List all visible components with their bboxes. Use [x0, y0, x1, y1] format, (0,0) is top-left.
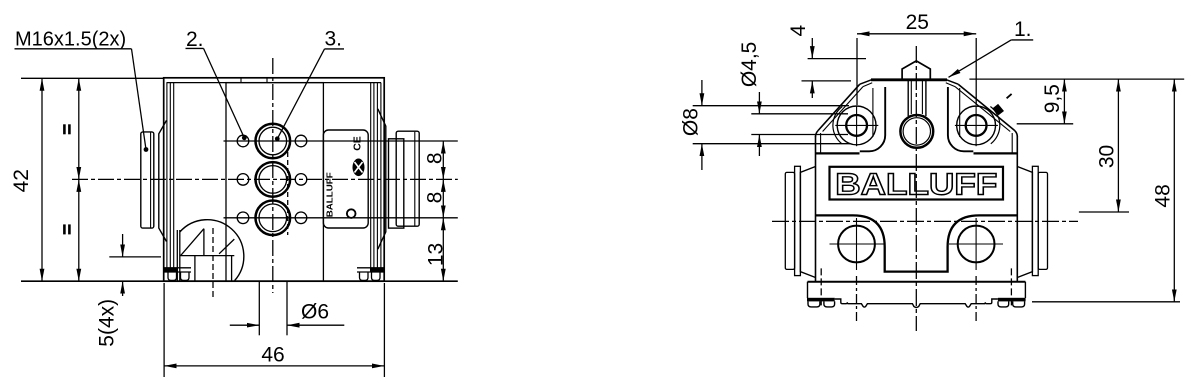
slope tick mark: [1007, 94, 1012, 98]
main vertical centerline: [915, 46, 917, 331]
front plate: [226, 83, 323, 282]
left foot: [807, 282, 809, 298]
dimension 46 extension lines: [163, 283, 165, 377]
svg-text:BALLUFF: BALLUFF: [326, 172, 335, 217]
48 reference line: [1032, 301, 1180, 303]
svg-text:Ø4,5: Ø4,5: [738, 42, 761, 88]
dimension 06: [230, 324, 259, 326]
svg-text:CE: CE: [352, 136, 364, 151]
plunger stem: [907, 81, 909, 117]
dimension 8 upper: [442, 141, 444, 179]
svg-text:13: 13: [424, 243, 447, 266]
svg-text:48: 48: [1151, 184, 1174, 207]
upper ledge right: [974, 152, 1018, 154]
svg-text:Ø6: Ø6: [301, 301, 329, 324]
housing right side: [1016, 136, 1018, 282]
left pocket wall: [860, 87, 885, 151]
dimension 25: [857, 33, 976, 35]
dimension 13: [442, 218, 444, 281]
hidden line: [287, 152, 289, 235]
dimension 06 extension lines: [258, 281, 260, 335]
dimension 9,5: [1063, 79, 1065, 124]
right hole wrap arc: [990, 107, 999, 144]
right seal flange: [1017, 167, 1032, 278]
lower pocket profile: [816, 215, 1018, 271]
label plate: [323, 130, 368, 228]
plate screw hole: [347, 209, 356, 218]
svg-text:1.: 1.: [1014, 18, 1032, 41]
dimension 30: [1117, 79, 1119, 212]
svg-text:4: 4: [787, 24, 810, 36]
right cable gland cap: [396, 131, 419, 226]
housing left side: [815, 136, 817, 282]
svg-text:M16x1.5(2x): M16x1.5(2x): [15, 29, 126, 51]
dimension 48: [1173, 79, 1175, 302]
cam block: [194, 256, 196, 281]
dimension 4 reference lines: [808, 58, 866, 60]
bottom hole right: [958, 226, 995, 263]
foot centerline right: [1010, 268, 1012, 307]
left cable gland flange: [159, 120, 167, 241]
dimension 8 lower: [442, 179, 444, 217]
dimension 46: [164, 365, 384, 367]
dimension = upper: [78, 78, 80, 179]
left corner foot: [165, 268, 179, 272]
dimension 04,5: [758, 92, 760, 114]
base profile line: [847, 304, 985, 308]
left seal ring: [795, 166, 801, 275]
small holes right column: [295, 135, 307, 147]
hole row line 1: [224, 140, 458, 142]
body outline: [164, 78, 385, 281]
svg-text:30: 30: [1095, 145, 1118, 168]
cam ledge: [180, 255, 234, 257]
left slope: [818, 84, 860, 130]
bottom hole left: [838, 226, 875, 263]
big hole 3 (row3): [255, 201, 290, 236]
svg-text:8: 8: [423, 152, 446, 164]
right corner foot: [370, 268, 384, 272]
dimension 08 tangent lines: [693, 105, 849, 107]
upper ledge left: [816, 152, 860, 154]
left seal cap: [785, 172, 794, 269]
9,5 reference line: [1017, 123, 1073, 125]
top hole left: [837, 106, 876, 145]
top hole right: [957, 106, 996, 145]
svg-text:Ø8: Ø8: [680, 108, 703, 136]
vertical centerline: [272, 58, 274, 293]
right seal ring: [1032, 166, 1038, 275]
cam left edge: [176, 230, 178, 281]
dimension = lower: [78, 179, 80, 281]
right cable gland ring: [389, 139, 404, 228]
horizontal centerline row 2: [72, 178, 458, 180]
cam wedge lines: [181, 229, 204, 256]
left seal flange: [800, 167, 815, 278]
left hole wrap arc: [833, 107, 842, 144]
dimension 4: [811, 38, 813, 59]
ground reference line: [21, 280, 458, 282]
dimension 25 extension lines: [856, 38, 858, 105]
WEEE icon: [353, 159, 365, 177]
right cable gland flange: [378, 109, 386, 249]
foot centerline left: [820, 268, 822, 307]
right seal cap: [1038, 172, 1047, 269]
top chamfer right: [947, 80, 959, 84]
top face groove edges: [872, 88, 874, 137]
svg-text:2.: 2.: [186, 28, 204, 51]
dimension 04,5 tangent lines: [751, 113, 848, 115]
plunger tip: [902, 61, 930, 80]
right pocket wall: [948, 87, 973, 151]
small holes left column: [237, 135, 249, 147]
hole row line 3: [224, 217, 458, 219]
svg-text:46: 46: [261, 344, 284, 367]
cam arc: [180, 220, 244, 281]
top reference line: [21, 77, 164, 79]
big hole 2 (row2): [255, 162, 290, 197]
dimension 42: [41, 78, 43, 281]
svg-text:42: 42: [10, 169, 33, 192]
dimension 5(4x): [109, 256, 161, 258]
center bore: [900, 115, 933, 148]
housing top edge: [871, 78, 947, 81]
hole centerline dashes below: [856, 276, 858, 322]
svg-text:3.: 3.: [325, 28, 343, 51]
top reference line right: [969, 78, 1184, 80]
slope clip detail: [993, 104, 1004, 115]
BALLUFF logo box: [830, 167, 1004, 200]
svg-text:5(4x): 5(4x): [96, 299, 119, 347]
right foot: [1024, 282, 1026, 298]
30 reference line: [1079, 211, 1129, 213]
right slope: [958, 84, 1015, 130]
svg-text:25: 25: [906, 11, 929, 34]
top chamfer left: [860, 80, 872, 84]
svg-text:8: 8: [423, 192, 446, 204]
big hole 1 (row1): [255, 124, 290, 159]
cam centerline: [212, 228, 214, 299]
left cable gland cap: [141, 132, 154, 228]
bottom edge: [808, 281, 1026, 283]
horizontal centerline: [772, 220, 1078, 222]
svg-text:9,5: 9,5: [1041, 84, 1064, 113]
dimension 08: [701, 80, 703, 106]
